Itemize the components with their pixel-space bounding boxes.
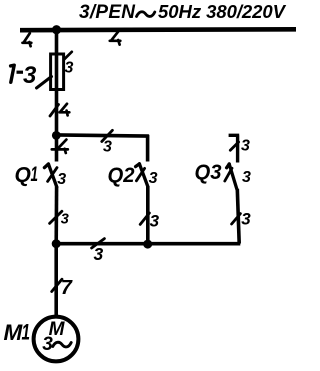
node A: bus tap junction (52, 25, 61, 34)
wire: corner down to Q2 contact (146, 135, 150, 162)
leader line from label 1-3 to fuse (37, 77, 52, 89)
wire: bottom collector line (55, 242, 241, 246)
conductor-count mark "4" on Q1 branch below node B (52, 140, 68, 153)
svg-text:3: 3 (42, 334, 53, 355)
wire: collector to motor M1 (54, 244, 58, 317)
motor tilde (53, 342, 71, 347)
wire: Q3 feed stub (229, 135, 240, 162)
wire: Q3 contact down to bottom corner (237, 189, 239, 244)
svg-text:3: 3 (241, 209, 251, 228)
svg-text:3: 3 (149, 170, 158, 187)
conductor-count mark "4" right of bus node (110, 31, 121, 45)
svg-text:3: 3 (150, 211, 160, 230)
node D: Q2 to collector junction (143, 240, 152, 249)
svg-text:50Hz 380/220V: 50Hz 380/220V (158, 1, 287, 22)
conductor mark slash at contact Q1 (48, 168, 57, 182)
svg-text:3: 3 (94, 244, 104, 264)
svg-text:3: 3 (61, 211, 69, 227)
wire: bus down through fuse to node B (55, 30, 59, 136)
conductor mark slash below fuse (50, 105, 59, 117)
label 1-3 (11, 65, 15, 82)
wire: Q1 contact to bottom node C (54, 187, 58, 244)
svg-text:M: M (4, 320, 24, 345)
svg-text:3: 3 (103, 138, 112, 155)
conductor mark slash at Q3 top (230, 142, 238, 150)
svg-text:7: 7 (61, 277, 73, 299)
svg-text:3: 3 (241, 138, 250, 155)
svg-text:Q: Q (15, 164, 31, 187)
node B: branch junction (52, 131, 61, 140)
conductor mark slash at contact Q2 (136, 168, 144, 180)
fuse 1-3 (body) (51, 54, 64, 90)
svg-text:Q3: Q3 (195, 161, 222, 184)
conductor-count digit "4" below fuse (60, 104, 70, 116)
net label: 3/PEN~50Hz 380/220V (79, 1, 287, 23)
svg-text:Q2: Q2 (108, 164, 135, 187)
svg-text:3: 3 (57, 171, 66, 188)
conductor mark slash on motor wire (52, 279, 62, 291)
conductor mark slash on collector line (92, 239, 105, 248)
supply bus wire (20, 27, 296, 33)
svg-text:1: 1 (31, 163, 39, 186)
contact Q1 (blade with end tick) (44, 164, 56, 187)
fuse tick mark (64, 52, 72, 60)
svg-text:3/PEN: 3/PEN (79, 2, 136, 23)
contact Q2 (blade with end tick) (136, 164, 148, 187)
svg-text:1: 1 (22, 320, 31, 345)
conductor mark slash at contact Q3 (225, 168, 232, 181)
node C: Q1 to collector junction (52, 239, 61, 248)
conductor mark slash on wire to Q2 (102, 130, 113, 141)
svg-text:3: 3 (242, 169, 251, 186)
conductor-count mark "4" left of bus node (23, 33, 32, 46)
wire: node B to Q2 branch corner (57, 135, 149, 136)
conductor mark slash on Q2 lower wire (140, 213, 149, 224)
svg-text:3: 3 (23, 62, 37, 89)
wire: node B down to Q1 contact (55, 136, 59, 162)
motor M1 circle (34, 317, 79, 362)
conductor mark slash on Q3 lower wire (232, 214, 241, 224)
conductor mark slash on Q1 lower wire (50, 211, 62, 223)
svg-text:3: 3 (65, 60, 74, 77)
contact Q3 (blade with end tick) (227, 164, 237, 189)
wire: Q2 contact to bottom node D (146, 186, 150, 244)
